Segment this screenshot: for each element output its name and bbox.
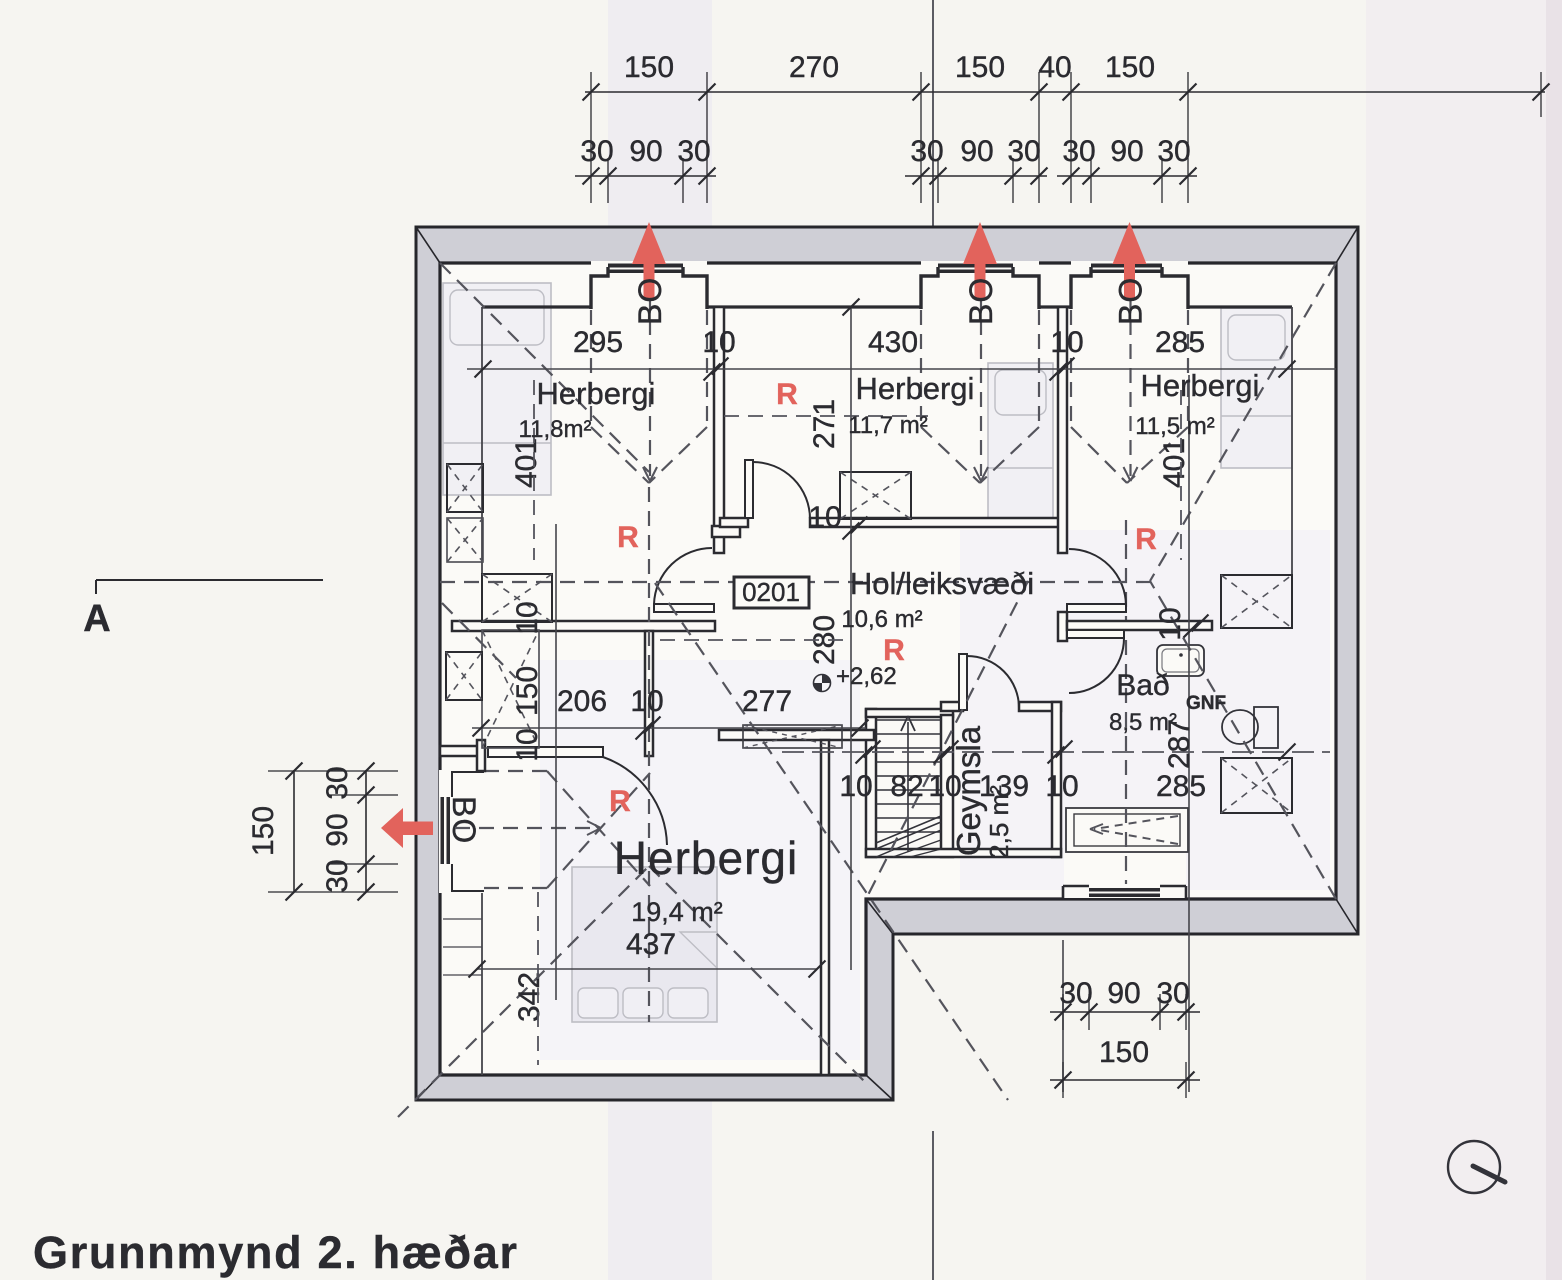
svg-text:270: 270 [789, 51, 839, 84]
svg-text:150: 150 [955, 51, 1005, 84]
svg-text:150: 150 [247, 806, 280, 856]
svg-text:BO: BO [632, 277, 668, 325]
svg-text:10,6 m²: 10,6 m² [841, 606, 922, 633]
svg-text:R: R [776, 378, 798, 411]
svg-text:GNF: GNF [1186, 693, 1226, 714]
svg-text:BO: BO [963, 277, 999, 325]
svg-text:10: 10 [511, 601, 544, 634]
svg-text:150: 150 [1105, 51, 1155, 84]
svg-text:R: R [617, 521, 639, 554]
svg-text:82: 82 [890, 770, 923, 803]
svg-text:30: 30 [321, 766, 354, 799]
svg-text:30: 30 [1062, 135, 1095, 168]
svg-text:40: 40 [1038, 51, 1071, 84]
svg-text:BO: BO [1113, 277, 1149, 325]
svg-text:10: 10 [630, 685, 663, 718]
svg-text:2,5 m²: 2,5 m² [984, 785, 1014, 859]
svg-text:150: 150 [1099, 1036, 1149, 1069]
svg-text:0201: 0201 [742, 577, 800, 607]
svg-text:Geymsla: Geymsla [950, 725, 987, 856]
svg-text:30: 30 [1156, 977, 1189, 1010]
svg-text:R: R [609, 785, 631, 818]
svg-text:277: 277 [742, 685, 792, 718]
svg-text:90: 90 [960, 135, 993, 168]
svg-text:150: 150 [511, 666, 544, 716]
svg-text:30: 30 [321, 859, 354, 892]
svg-text:30: 30 [580, 135, 613, 168]
svg-text:8,5 m²: 8,5 m² [1109, 709, 1177, 736]
svg-text:30: 30 [910, 135, 943, 168]
svg-text:10: 10 [839, 770, 872, 803]
svg-text:271: 271 [808, 399, 841, 449]
svg-text:10: 10 [808, 501, 841, 534]
svg-text:R: R [1135, 523, 1157, 556]
svg-text:90: 90 [321, 813, 354, 846]
svg-text:295: 295 [573, 326, 623, 359]
svg-text:10: 10 [511, 728, 544, 761]
svg-text:11,8m²: 11,8m² [519, 416, 592, 443]
svg-text:206: 206 [557, 685, 607, 718]
svg-text:285: 285 [1156, 770, 1206, 803]
svg-text:Herbergi: Herbergi [537, 376, 656, 411]
svg-text:150: 150 [624, 51, 674, 84]
svg-text:11,5 m²: 11,5 m² [1135, 413, 1215, 440]
svg-text:342: 342 [513, 972, 546, 1022]
svg-text:Herbergi: Herbergi [614, 832, 798, 884]
svg-text:Herbergi: Herbergi [1141, 368, 1260, 403]
svg-text:10: 10 [1050, 326, 1083, 359]
svg-text:90: 90 [1110, 135, 1143, 168]
svg-text:R: R [883, 634, 905, 667]
svg-text:11,7 m²: 11,7 m² [848, 412, 928, 439]
svg-text:10: 10 [702, 326, 735, 359]
svg-text:10: 10 [1045, 770, 1078, 803]
svg-text:Bað: Bað [1116, 669, 1169, 702]
svg-text:Herbergi: Herbergi [856, 371, 975, 406]
svg-text:19,4 m²: 19,4 m² [631, 897, 723, 927]
svg-text:Grunnmynd 2. hæðar: Grunnmynd 2. hæðar [33, 1227, 519, 1278]
svg-text:A: A [83, 598, 110, 640]
svg-text:30: 30 [1157, 135, 1190, 168]
svg-text:430: 430 [868, 326, 918, 359]
svg-text:285: 285 [1155, 326, 1205, 359]
svg-text:30: 30 [1007, 135, 1040, 168]
svg-text:437: 437 [626, 928, 676, 961]
svg-text:30: 30 [1059, 977, 1092, 1010]
svg-text:BO: BO [446, 796, 482, 844]
svg-text:90: 90 [1107, 977, 1140, 1010]
svg-text:+2,62: +2,62 [836, 663, 897, 690]
svg-text:401: 401 [510, 438, 543, 488]
svg-text:90: 90 [629, 135, 662, 168]
svg-text:Hol/leiksvæði: Hol/leiksvæði [850, 566, 1034, 601]
svg-text:401: 401 [1158, 438, 1191, 488]
svg-text:10: 10 [1154, 607, 1187, 640]
svg-text:30: 30 [677, 135, 710, 168]
